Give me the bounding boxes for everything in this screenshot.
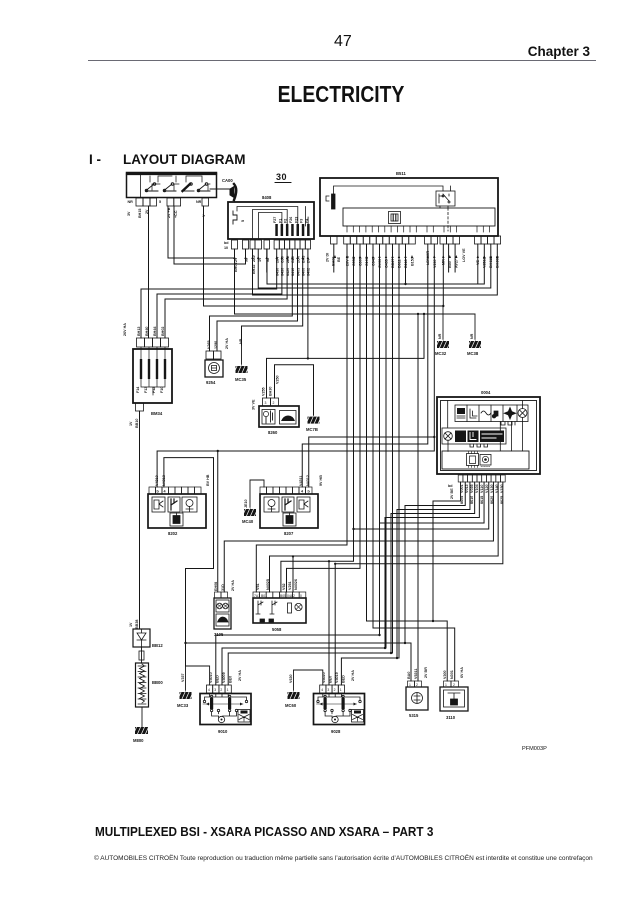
B511 wire arrows (334, 255, 499, 258)
fuse unit BM34 (123, 323, 172, 416)
svg-text:2V HA: 2V HA (231, 580, 235, 591)
wire 0004 pin2 staircase (405, 482, 465, 643)
svg-text:3V: 3V (127, 211, 131, 216)
8408 pin labels (224, 241, 311, 276)
svg-text:MC35: MC35 (235, 377, 247, 382)
fuse box BB00 (136, 663, 164, 707)
pump unit 9254 (205, 338, 229, 385)
wire bus 8408 to B511 row A (267, 244, 484, 284)
svg-text:6400: 6400 (302, 268, 306, 276)
wire lamp 3105 pin1 riser (217, 451, 219, 592)
wire B511 to aerial 3110 pin2 (373, 244, 455, 681)
svg-text:6430: 6430 (281, 268, 285, 276)
svg-text:MPH: MPH (456, 437, 464, 441)
fuse between BB12 and BB00 (139, 647, 144, 663)
svg-text:2BE: 2BE (286, 255, 290, 263)
svg-text:V251: V251 (288, 581, 292, 590)
svg-text:BB10: BB10 (135, 419, 139, 428)
svg-text:BA3: BA3 (302, 256, 306, 263)
footer title (95, 825, 433, 839)
page title (275, 81, 408, 108)
svg-text:V035: V035 (470, 484, 474, 493)
svg-text:2: 2 (334, 688, 336, 692)
svg-text:6420: 6420 (286, 268, 290, 276)
wire B511 drop to row A (405, 244, 407, 284)
svg-text:5: 5 (241, 220, 245, 222)
instrument cluster 0004 (437, 390, 540, 474)
wire 8260 pin3 to bus node (267, 314, 425, 398)
svg-text:2V HA: 2V HA (238, 670, 242, 681)
svg-text:2V HA: 2V HA (351, 670, 355, 681)
svg-text:NR: NR (438, 333, 442, 339)
svg-text:BH15: BH15 (138, 209, 142, 218)
junction dots (184, 283, 444, 659)
svg-text:BE: BE (337, 256, 341, 262)
copyright line (94, 855, 614, 862)
svg-text:F13: F13 (144, 387, 148, 393)
page number (334, 33, 352, 51)
svg-text:1: 1 (340, 688, 342, 692)
svg-text:NR: NR (128, 200, 134, 204)
svg-text:BH30: BH30 (269, 387, 273, 396)
svg-text:9V HB: 9V HB (319, 475, 323, 486)
chapter heading (528, 44, 590, 59)
svg-text:BB12: BB12 (152, 643, 163, 648)
svg-text:BED: BED (342, 675, 346, 683)
svg-text:8610: 8610 (470, 496, 474, 504)
svg-text:JE10: JE10 (244, 499, 248, 508)
wire 0004 pin1 staircase (433, 482, 461, 621)
svg-text:C20: C20 (291, 256, 295, 263)
svg-text:C30: C30 (281, 256, 285, 263)
svg-text:BH44: BH44 (153, 326, 157, 336)
svg-text:N4026: N4026 (294, 579, 298, 590)
svg-text:1V: 1V (129, 421, 133, 426)
svg-text:4: 4 (164, 490, 167, 494)
header rule (88, 60, 596, 61)
svg-text:0004: 0004 (481, 390, 491, 395)
svg-text:V110: V110 (480, 485, 484, 493)
svg-text:CA00: CA00 (222, 178, 233, 183)
svg-text:8202: 8202 (168, 531, 178, 536)
B511 internal relay (436, 186, 455, 231)
svg-text:2V DI: 2V DI (326, 253, 330, 262)
wire 0004 pin10 to switch 5058 pin4 (335, 482, 503, 564)
svg-text:F3: F3 (300, 219, 304, 223)
svg-text:F10: F10 (160, 387, 164, 393)
wire B511 to door unit 8202 pin1 (157, 244, 434, 487)
relay unit (top left) (127, 173, 217, 198)
svg-text:V250: V250 (276, 375, 280, 384)
svg-text:BM34: BM34 (151, 411, 163, 416)
svg-text:V300: V300 (443, 670, 447, 679)
svg-text:F14: F14 (136, 386, 140, 393)
svg-text:4: 4 (321, 688, 323, 692)
svg-text:3110: 3110 (446, 715, 456, 720)
svg-text:V52: V52 (282, 583, 286, 590)
wire relay +CC to bus (168, 206, 235, 258)
wire relay +B to 8408 pin (174, 206, 246, 264)
svg-text:+CC: +CC (174, 210, 178, 218)
svg-text:6410: 6410 (291, 268, 295, 276)
svg-text:V4010: V4010 (209, 672, 213, 683)
svg-text:BH02: BH02 (161, 327, 165, 336)
wire 8408 to battery unit 8260 node (307, 249, 309, 358)
B511 pin labels (326, 248, 500, 268)
svg-text:F1: F1 (278, 219, 282, 223)
wire relay pin V to ground MC32 (204, 206, 444, 306)
svg-text:6405: 6405 (296, 268, 300, 276)
svg-text:V150: V150 (500, 484, 504, 493)
node label 30 (275, 172, 291, 183)
door lock unit 8207 (260, 475, 323, 536)
svg-text:5: 5 (159, 200, 161, 204)
svg-text:M800: M800 (133, 738, 144, 743)
B511 pin row (331, 236, 501, 244)
svg-text:BV HB: BV HB (206, 474, 210, 486)
svg-text:V255: V255 (262, 387, 266, 396)
svg-text:1: 1 (227, 688, 229, 692)
ground MC7B (275, 365, 322, 432)
battery monitor unit 8260 (252, 375, 300, 435)
svg-text:BB38: BB38 (135, 620, 139, 629)
svg-text:5058: 5058 (272, 627, 282, 632)
svg-text:km/h: km/h (456, 432, 464, 436)
svg-text:28V: 28V (276, 256, 280, 263)
wire BM34 to diode BB12 (139, 411, 141, 629)
svg-text:V630: V630 (289, 674, 293, 683)
interior lamp 3105 (214, 580, 235, 637)
svg-text:bd: bd (224, 241, 229, 245)
ground MC40 (242, 480, 264, 524)
wire 0004 pin9 to switch 5058 pin3 (270, 482, 499, 592)
wire 9028 pin3 riser (334, 564, 336, 685)
svg-text:8207: 8207 (284, 531, 294, 536)
wire 8408/6430 to BM34 pin3 (157, 249, 282, 338)
svg-text:MC38: MC38 (467, 351, 479, 356)
wire 0004 pin4 staircase (391, 482, 475, 653)
wire B511 pin to MC32 node (442, 244, 444, 306)
section heading (89, 152, 246, 167)
wire 8408 pin BE to ground MC38 (235, 249, 476, 314)
wire 0004 pin3 staircase (397, 482, 470, 658)
pin stub wires (267, 244, 455, 272)
svg-text:NR: NR (470, 333, 474, 339)
wire 8408/6420 to BM34 pin4 (165, 249, 287, 338)
feed label 1V BB10 (129, 419, 139, 428)
fuses inside 8408 (275, 224, 309, 236)
svg-text:NR: NR (196, 200, 202, 204)
svg-text:3: 3 (327, 688, 329, 692)
wire 0004 pin7 to lifter 9028 pin5 (354, 482, 489, 529)
svg-text:9028: 9028 (331, 729, 341, 734)
svg-text:4: 4 (208, 688, 210, 692)
wire B511 to lifter 9010 pin2 (216, 244, 380, 685)
wire B511 to door unit 8207 (302, 244, 428, 487)
plate reference PFM003P (522, 746, 547, 752)
svg-text:F26: F26 (289, 217, 293, 223)
svg-text:4: 4 (301, 490, 304, 494)
svg-text:10: 10 (224, 246, 228, 250)
svg-text:8625: 8625 (500, 496, 504, 504)
window lifter unit 9010 (200, 670, 251, 734)
8408 wire arrows (233, 256, 309, 259)
wire 8207 pin8 to node (309, 437, 435, 487)
fuse box 8408 (228, 195, 314, 239)
wire 0004 pin5 staircase (385, 482, 479, 648)
svg-text:F23: F23 (294, 217, 298, 223)
svg-text:N301: N301 (450, 670, 454, 679)
door lock unit 8202 (148, 474, 210, 536)
0004 telltale row (455, 405, 528, 422)
aerial amplifier 3110 (440, 667, 468, 720)
svg-text:LGV VE: LGV VE (462, 248, 466, 262)
switch unit 5058 (253, 579, 306, 632)
0004 pin labels (448, 483, 504, 504)
wire 0004 pin8 to lamp 3105 pin2 (224, 482, 493, 592)
window lifter unit 9028 (314, 670, 365, 734)
svg-text:b: b (157, 490, 160, 494)
diode unit BB12 (129, 620, 163, 648)
svg-text:BA0: BA0 (407, 672, 411, 679)
wire B511 drop to row A right (477, 244, 479, 284)
svg-text:6450: 6450 (276, 268, 280, 276)
svg-text:BE0: BE0 (229, 676, 233, 683)
svg-text:bd: bd (448, 484, 453, 488)
wire 9028 pin2 riser (328, 561, 330, 685)
wire bus 8408 to B511 row C (253, 244, 498, 295)
ground MC35 (234, 338, 250, 382)
wire bus 8408 to B511 row B (258, 244, 491, 288)
0004 lower electronics (442, 451, 529, 469)
relay contacts inside relay unit (145, 176, 230, 192)
svg-text:2GV: 2GV (296, 255, 300, 263)
svg-text:6V HA: 6V HA (460, 667, 464, 678)
wire bus node to socket 5315 pin2 (417, 314, 419, 681)
svg-text:MC40: MC40 (242, 519, 254, 524)
svg-text:9010: 9010 (218, 729, 228, 734)
svg-text:2V BR: 2V BR (424, 667, 428, 678)
B511 internal connector icon (389, 212, 401, 224)
svg-text:MC60: MC60 (285, 703, 297, 708)
0004 pin row (458, 475, 505, 482)
wire B511 to lifter 9010 pin4 (228, 244, 392, 685)
wire 8408/6450 to BM34 pin1 (141, 249, 277, 338)
0004 telltale row feet (448, 401, 523, 452)
svg-text:b: b (308, 490, 311, 494)
wire B511 to lifter 9010 pin3 (222, 244, 386, 685)
svg-text:MC32: MC32 (435, 351, 447, 356)
ground MC38 (467, 314, 483, 356)
svg-text:2V BE: 2V BE (450, 488, 454, 499)
wire 8408/6405 to pump 9254 pin2 (217, 249, 298, 351)
wire B511 to switch 5058 pin6 (287, 244, 361, 592)
svg-text:26V HA: 26V HA (123, 323, 127, 336)
svg-text:2V HA: 2V HA (225, 338, 229, 349)
B511 inner pin ticks (347, 226, 490, 232)
wire B511 to aerial 3110 pin1 (367, 244, 448, 681)
svg-text:MC7B: MC7B (306, 427, 318, 432)
0004 gauge row (442, 428, 506, 451)
svg-text:V230: V230 (433, 259, 437, 268)
svg-text:3: 3 (265, 401, 267, 405)
wire branch to socket 5315 pin1 (186, 643, 412, 681)
wire 8408/6410 to pump 9254 pin1 (210, 249, 293, 351)
svg-text:8615: 8615 (480, 496, 484, 504)
svg-text:30: 30 (276, 172, 287, 182)
B511 internal supply bar (326, 186, 443, 209)
wire 5058 pin5 riser (292, 556, 294, 592)
relay unit pin labels (127, 200, 206, 218)
svg-text:2: 2 (220, 688, 222, 692)
svg-text:B153: B153 (411, 257, 415, 266)
svg-text:B511: B511 (396, 171, 406, 176)
wire 8202 pin2 to MC33 chain (164, 458, 214, 666)
svg-text:BB00: BB00 (152, 680, 163, 685)
wire B511 to switch 5058 pin5 (281, 244, 354, 592)
wire 0004 pin6 staircase (380, 482, 485, 635)
svg-text:V337: V337 (181, 673, 185, 682)
svg-text:8260: 8260 (268, 430, 278, 435)
8408 pin row (232, 240, 311, 249)
BSI unit B511 (320, 171, 498, 236)
fuse labels inside 8408 (273, 217, 309, 223)
ground M800 (133, 707, 149, 743)
svg-text:3: 3 (214, 688, 216, 692)
wire 8408/6400 to ground MC35 (242, 249, 303, 345)
relay unit pin row (136, 198, 209, 206)
svg-text:V4020: V4020 (322, 672, 326, 683)
8408 internal wiring (237, 207, 308, 239)
svg-text:V5311: V5311 (414, 669, 418, 679)
svg-text:F27: F27 (273, 217, 277, 223)
svg-text:2: 2 (273, 401, 275, 405)
svg-text:MC33: MC33 (177, 703, 189, 708)
ground MC60 (285, 670, 323, 708)
svg-text:8408: 8408 (262, 195, 272, 200)
svg-text:3V VE: 3V VE (252, 399, 256, 410)
svg-text:V4009: V4009 (222, 672, 226, 683)
svg-text:BH13: BH13 (137, 327, 141, 336)
svg-text:F12: F12 (152, 387, 156, 393)
ground MC32 (435, 306, 451, 356)
svg-text:1V: 1V (129, 622, 133, 627)
svg-text:F2: F2 (284, 219, 288, 223)
wire B511 to switch 5058 pin1 (256, 244, 347, 592)
svg-text:6402: 6402 (307, 268, 311, 276)
svg-text:N4312: N4312 (306, 475, 310, 486)
svg-text:5315: 5315 (409, 713, 419, 718)
svg-text:9254: 9254 (206, 380, 216, 385)
svg-text:V104: V104 (475, 483, 479, 493)
horn CA00 (222, 178, 236, 200)
diagnostic socket 5315 (406, 667, 428, 718)
wire relay unit to BM34 pin2 (148, 206, 150, 338)
ground MC33 (177, 666, 210, 708)
wire B511 to lifter 9010 pin5 (341, 244, 399, 685)
